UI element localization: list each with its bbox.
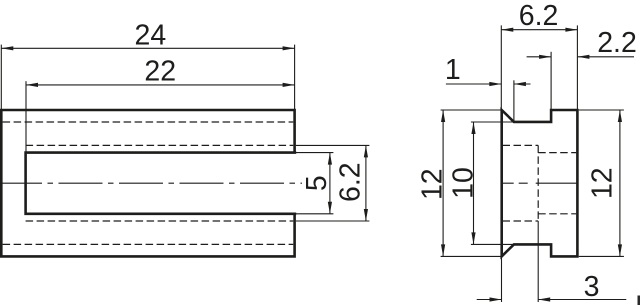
dimension 24 arrow right: [283, 46, 295, 50]
right view hidden counterbore bottom face: [537, 145, 539, 221]
right view outer outline with chamfers: [502, 110, 578, 256]
svg-text:2.2: 2.2: [597, 27, 637, 59]
dimension 12 (right) extension line bottom: [579, 255, 624, 257]
left view slot (bore) outline: [26, 153, 297, 214]
left view hidden line top (dia 10): [3, 121, 294, 123]
dimension 3 arrow left: [490, 297, 502, 301]
dimension 1 extension line right: [513, 80, 515, 121]
dimension 10 line: [473, 122, 475, 244]
dimension 12 (right) extension line top: [579, 109, 624, 111]
dimension 22 extension line left: [25, 81, 27, 152]
dimension 10 extension line top: [471, 121, 513, 123]
dimension 3 line left tail: [477, 299, 502, 301]
dimension 5 arrow top: [328, 153, 332, 165]
left view hidden line top (dia 6.2): [26, 144, 294, 146]
dimension 6.2 (left view) arrow bottom: [364, 209, 368, 221]
dimension 2.2 arrow right: [577, 55, 589, 59]
dimension 3 extension line left: [501, 258, 503, 302]
svg-text:22: 22: [144, 55, 176, 87]
right view hidden bore top (dia 5): [538, 152, 576, 154]
right view hidden counterbore bottom (dia 6.2): [503, 220, 539, 222]
right view hidden counterbore top (dia 6.2): [503, 144, 539, 146]
dimension 22 arrow right: [283, 83, 295, 87]
dimension 6.2 (top) arrow left: [501, 28, 513, 32]
dimension 3 line right tail: [538, 299, 626, 301]
svg-text:12: 12: [587, 167, 619, 199]
dimension 22 line: [26, 84, 295, 86]
svg-text:6.2: 6.2: [519, 0, 559, 32]
dimension 12 (left) arrow bottom: [441, 244, 445, 256]
dimension 10 arrow bottom: [471, 232, 475, 244]
dimension 12 (right) arrow top: [618, 110, 622, 122]
dimension 10 arrow top: [471, 122, 475, 134]
dimension 5 arrow bottom: [328, 202, 332, 214]
dimension 6.2 (top) line: [501, 29, 577, 31]
dimension 12 (left) extension line top: [441, 109, 501, 111]
dimension 6.2/2.2 (top) extension line right: [576, 25, 578, 109]
dimension 1 arrow left: [489, 82, 501, 86]
left view center line: [0, 182, 302, 184]
dimension 6.2 (left view) extension line top: [296, 144, 370, 146]
dimension 12 (right) arrow bottom: [618, 244, 622, 256]
dimension 5 extension line top: [296, 152, 334, 154]
svg-text:6.2: 6.2: [334, 162, 366, 202]
svg-text:3: 3: [584, 271, 600, 303]
dimension 22 arrow left: [26, 83, 38, 87]
dimension 5 extension line bottom: [296, 213, 334, 215]
dimension 24 arrow left: [1, 46, 13, 50]
dimension 5 line: [329, 153, 331, 214]
dimension 12 (left) extension line bottom: [441, 255, 501, 257]
dimension 6.2 (left view) line: [365, 145, 367, 221]
dimension 1 line left tail: [446, 83, 501, 85]
dimension 24 line: [1, 47, 294, 49]
left view hidden line bottom (dia 10): [3, 243, 294, 245]
right view center line: [502, 182, 578, 184]
dimension 12 (left) arrow top: [441, 110, 445, 122]
dimension 1 arrow right: [514, 82, 526, 86]
dimension 2.2 line right tail: [577, 56, 634, 58]
cropped glyph artifact bottom right: [638, 296, 640, 305]
dimension 2.2 line left tail: [527, 56, 552, 58]
svg-text:10: 10: [448, 167, 480, 199]
dimension 2.2 arrow left: [539, 55, 551, 59]
dimension 3 extension line right: [537, 221, 539, 302]
dimension 6.2 (top) extension line left: [500, 25, 502, 109]
dimension 3 arrow right: [538, 297, 550, 301]
left view outer outline: [1, 110, 294, 256]
dimension 10 extension line bottom: [471, 243, 513, 245]
dimension 6.2 (top) arrow right: [565, 28, 577, 32]
right view hidden bore bottom (dia 5): [538, 213, 576, 215]
dimension 12 (left of right view) line: [442, 110, 444, 256]
dimension 12 (right of right view) line: [619, 110, 621, 256]
dimension 1 line right tail: [514, 83, 531, 85]
svg-text:12: 12: [416, 168, 448, 200]
dimension 6.2 (left view) arrow top: [364, 145, 368, 157]
left view hidden line bottom (dia 6.2): [26, 220, 294, 222]
svg-text:1: 1: [445, 54, 461, 86]
dimension 2.2 extension line left: [550, 52, 552, 109]
svg-text:24: 24: [135, 19, 167, 51]
svg-text:5: 5: [301, 175, 333, 191]
dimension 24 extension line left: [0, 45, 2, 109]
dimension 6.2 (left view) extension line bottom: [296, 220, 370, 222]
dimension 24/22 extension line right: [294, 45, 296, 109]
